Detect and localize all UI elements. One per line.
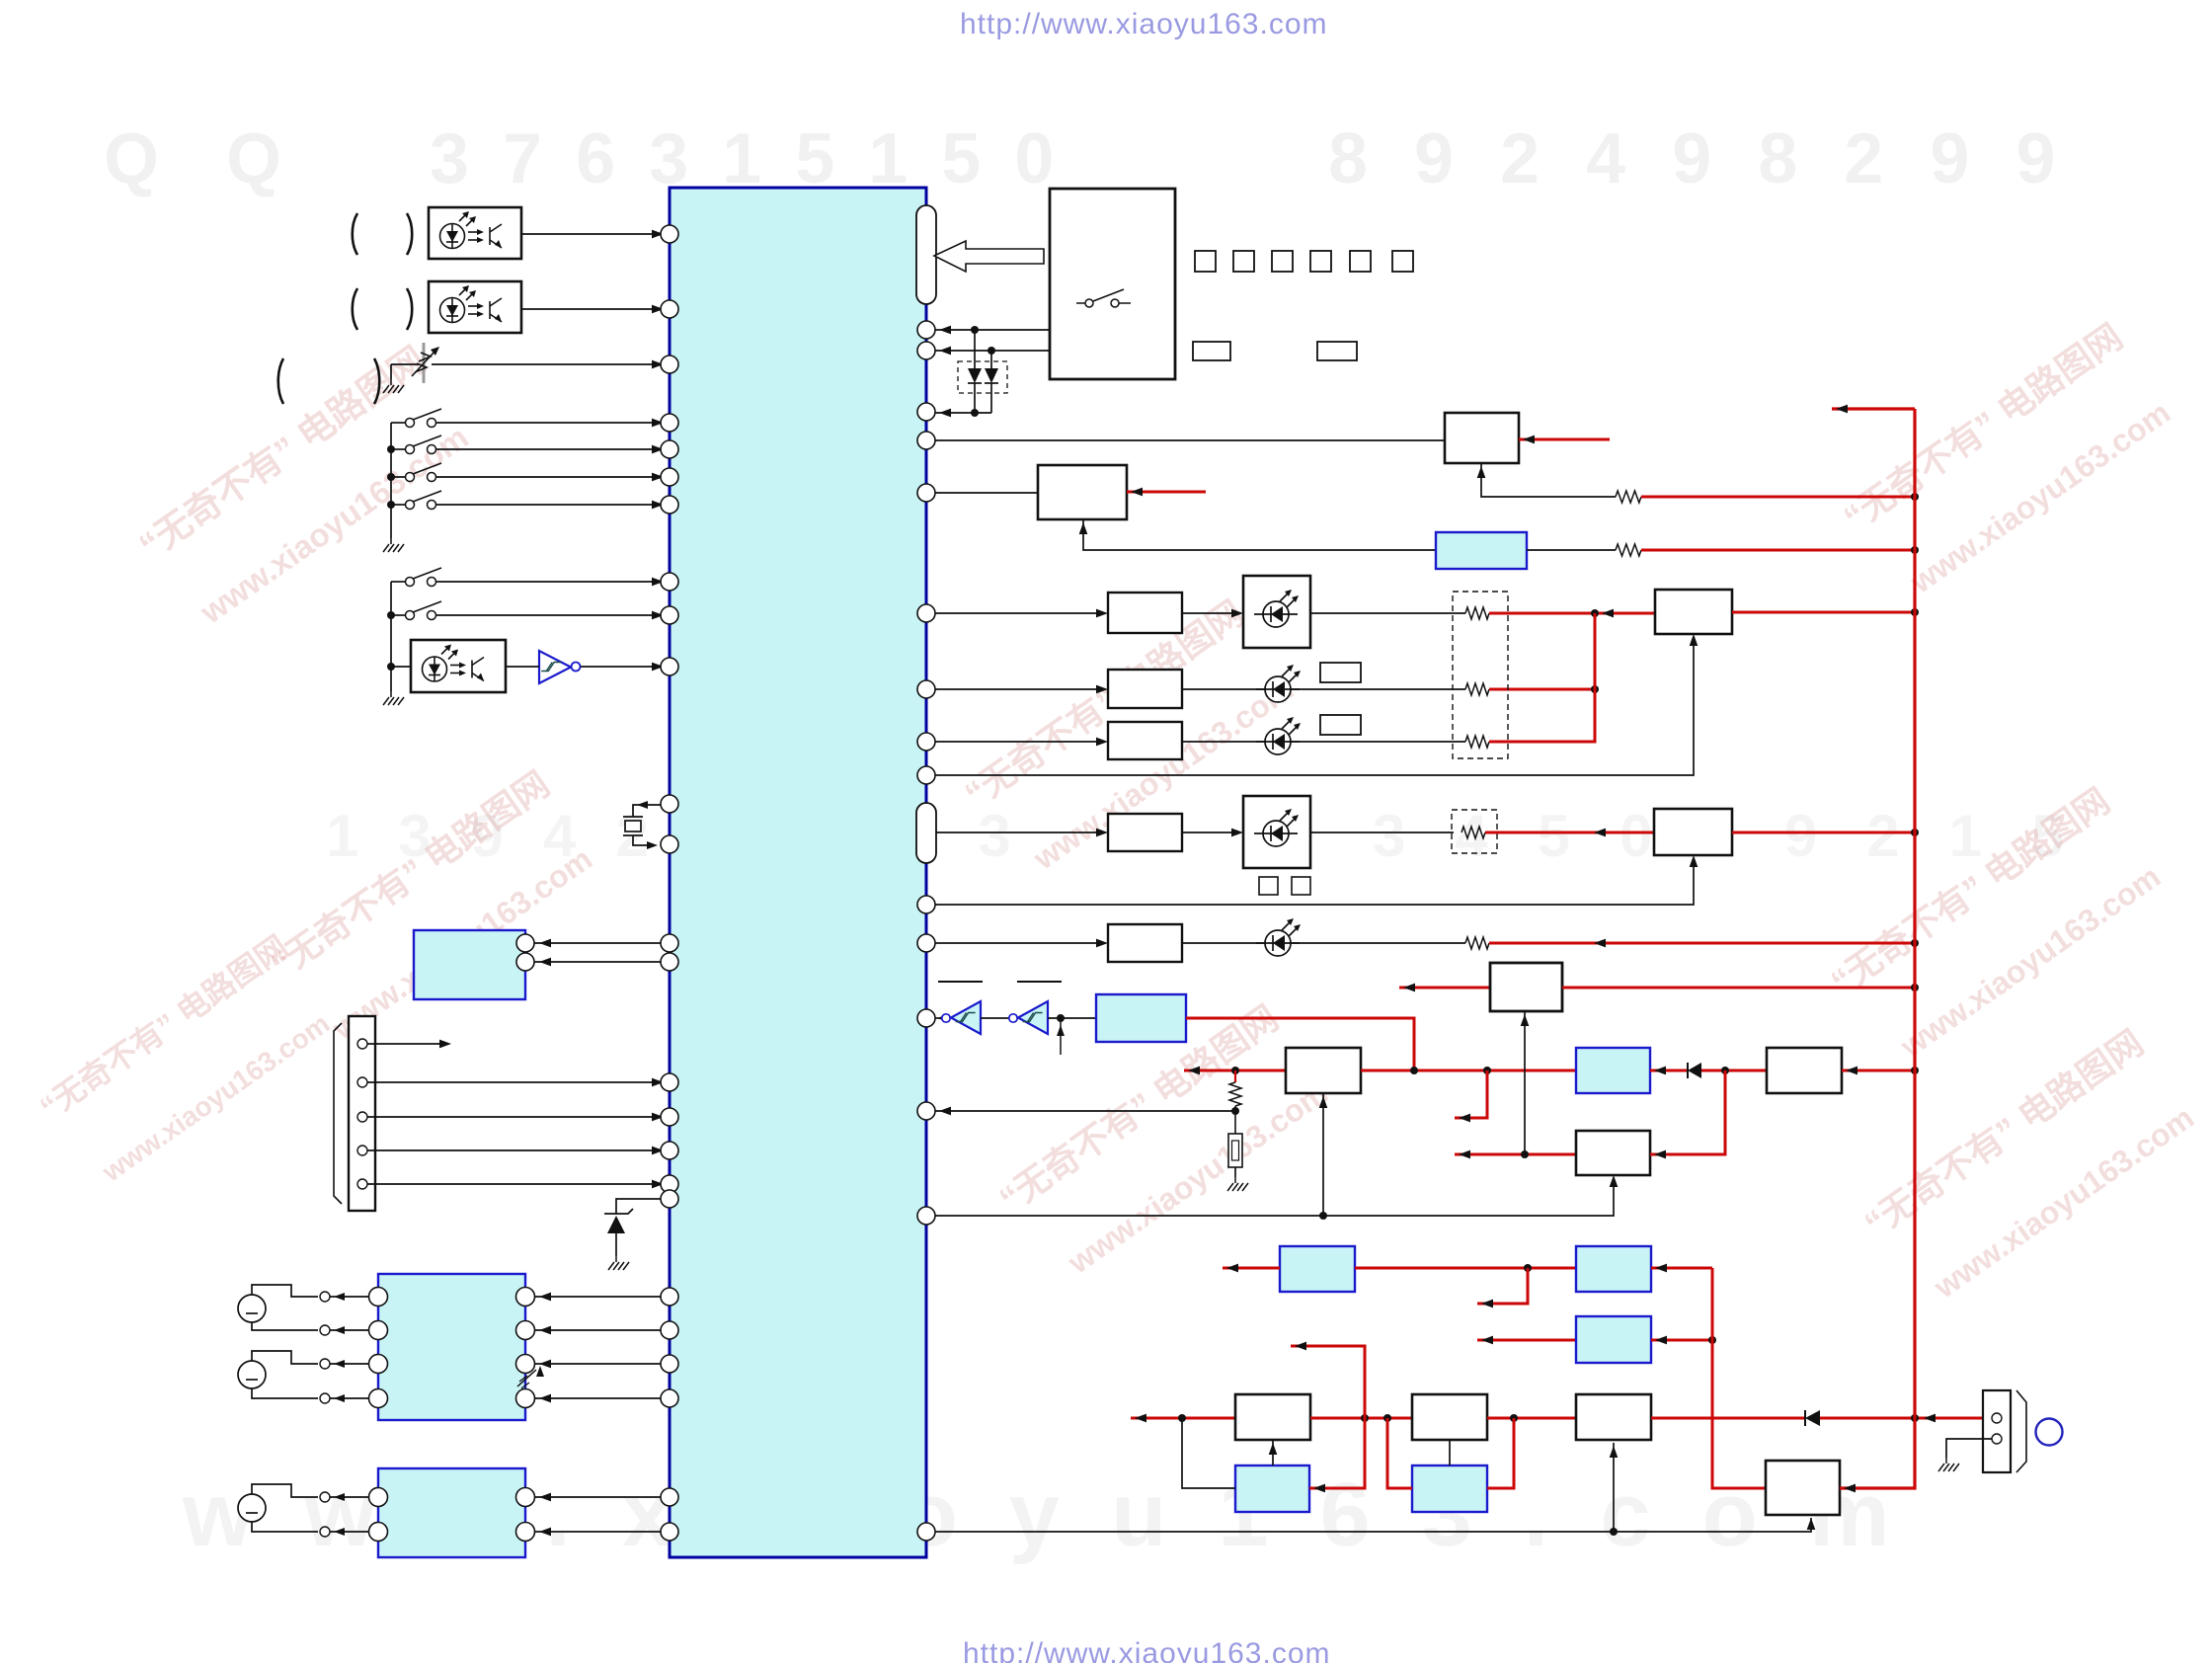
bus port P1 (pill) [916,205,936,304]
switch inside U6 [1076,289,1131,307]
red row1436 d [1820,1417,1983,1420]
contact small U5 y1551 [320,1527,330,1537]
pin U4 left y1416 [369,1389,388,1408]
red U17 to bus [1842,1069,1915,1072]
wire switch bus 2 [390,582,392,691]
small rect A [1193,342,1230,360]
small squares under LED4 [1259,877,1278,895]
red wire R1 to bus [1641,496,1915,499]
pin CN1-4 (left) [661,1142,678,1159]
red to U17 [1725,1069,1767,1072]
filter box U16 (cyan) [1576,1048,1650,1093]
pin (left) S2 [661,440,678,458]
ground switch bus 2 [383,691,404,705]
pin U4 right y1313 [516,1288,535,1307]
pin (right) 334 [917,321,935,339]
pin (left) S1 [661,414,678,432]
wire led1 right [1310,612,1465,614]
wire drv1 to led1 [1182,612,1236,614]
pin U3b (block) [516,953,534,971]
inverter bubble A [942,1014,950,1022]
LED3 [1256,717,1301,754]
wire J1 sleeve [252,1322,318,1330]
alt box U18 [1576,1131,1650,1175]
watermark top url [960,8,1328,41]
red diode link [1650,1069,1688,1072]
red wire led1 [1489,612,1655,615]
wire schmitt to pin [581,666,661,668]
pin (right) 355 [917,342,935,359]
red wire led5 [1489,942,1915,945]
photo-interrupter PH3 [411,640,506,692]
audio box U20 (cyan) [1280,1246,1355,1292]
pin U4 left y1347 [369,1321,388,1340]
schmitt inverter U13 [1018,1001,1048,1034]
fuse F1 [1234,1111,1236,1134]
diode pair D2 D3 (dashed box) [958,361,1007,393]
dashed resistor group box [1453,592,1508,758]
parentheses label PH2 [353,288,357,330]
jack J1 [238,1295,266,1322]
red row1436 a [1310,1417,1412,1420]
pin U5 left y1516 [369,1488,388,1507]
red vertical x1734 [1712,1268,1766,1488]
ground CN2 [1938,1458,1959,1471]
pin (right) 785 [917,766,935,784]
red bus vertical [1913,409,1916,1418]
wire J3 tip [252,1484,318,1497]
pin 1 (left) [661,225,678,243]
pin (right) 417 [917,403,935,421]
red wire U11 to bus [1732,831,1915,834]
wire U4-IC y1381 [535,1363,661,1365]
red row1000 left [1399,987,1490,990]
wire U5-IC y1551 [535,1531,661,1533]
red row1284 right [1651,1267,1712,1270]
pin 3 (left) [661,356,678,373]
red bus to U28 [1840,1418,1915,1488]
contact small U5 y1516 [320,1492,330,1502]
wire S4 to pin [435,504,661,506]
wire led2 right [1291,688,1465,690]
output connector CN2 [1983,1390,2011,1472]
wire zener [616,1199,661,1214]
sub box U27 (cyan) [1412,1465,1487,1512]
watermark QQ numbers row [104,119,349,199]
wire U4 contact y1347 [330,1329,368,1331]
overline marks [938,981,983,983]
resistor R7 [1465,937,1489,949]
pin zener (left) [661,1190,678,1208]
wire U4-IC y1416 [535,1397,661,1399]
pin CN1-5 (left) [661,1175,678,1193]
wire CN2 ground [1946,1439,1992,1458]
bus port P2 (pill) [916,803,936,863]
wire CN1-4 [367,1149,661,1151]
wire U13 out [1048,1017,1096,1019]
red stub down-left [1455,1070,1487,1118]
wire CN1-3 [367,1116,661,1118]
contact small U4 y1416 [320,1393,330,1403]
wire RV1 to pin [432,363,661,365]
pin (right) 1551 [917,1523,935,1541]
resistor R4 (in dashed) [1465,683,1489,695]
wire U12-U13 [981,1017,1008,1019]
indicator square 3 [1272,251,1293,272]
pin (left) S6 [661,606,678,624]
reg box U17 [1767,1048,1842,1093]
pin U4 right y1416 [516,1389,535,1408]
wire U26 to U23 [1272,1440,1274,1465]
amp box U23 [1235,1394,1310,1440]
red row1436 b [1487,1417,1576,1420]
power box U28 [1766,1461,1840,1515]
wire CN1-2 [367,1081,661,1083]
parentheses label PH1 [353,213,357,255]
pin U4 right y1381 [516,1355,535,1374]
red tap junction [1231,1067,1239,1074]
driver box DR1 [1108,593,1182,633]
pin (right) 1125 [917,1102,935,1120]
wire PH3 to schmitt [506,666,539,668]
amp box U25 [1576,1394,1651,1440]
wire S2 to pin [435,448,661,450]
LED1 box [1243,576,1310,648]
wire PH1 to pin [521,233,661,235]
red row1357 right [1651,1339,1712,1342]
red wire led2 [1489,688,1595,691]
wire U7 bottom feed [1481,463,1616,497]
wire CN1-5 [367,1183,661,1185]
small rect B [1317,342,1357,360]
indicator square 6 [1392,251,1413,272]
red U27 out [1487,1418,1514,1488]
red row1357 left [1477,1339,1576,1342]
driver box DR3 [1108,722,1182,759]
indicator square 4 [1310,251,1331,272]
red row1084 mid [1361,1069,1576,1072]
pin (right) 955 [917,934,935,952]
wire pin1031 [935,1017,942,1019]
red U19 to bus [1562,987,1915,990]
memory block U3 (cyan) [414,930,525,999]
sub box U26 (cyan) [1235,1465,1309,1512]
jack J2 [238,1361,266,1388]
pin CN1-3 (left) [661,1108,678,1126]
wire U3 row2 [534,961,661,963]
pin U3a (block) [516,934,534,952]
pin IC left y1347 [661,1321,678,1339]
contact CN2-1 [1992,1413,2002,1423]
connector CN1 bracket [334,1023,342,1204]
schmitt buffer U2 [539,651,571,683]
pin (right) 621 [917,604,935,622]
key block U4 (cyan) [378,1274,525,1420]
wire U5 contact y1516 [330,1496,368,1498]
crystal X1 [633,805,662,817]
wiper arrows U4 [517,1370,536,1386]
pin XTAL1 (left) [661,795,678,813]
driver box DR2 [1108,670,1182,708]
amp box U24 [1412,1394,1487,1440]
wire pin916 to U11 [935,858,1694,905]
red stub U7 [1519,438,1610,441]
pin U4 left y1381 [369,1355,388,1374]
pin U3a (left) [661,934,678,952]
system control box U6 [1050,189,1175,379]
wire U15 feed [1322,1093,1324,1217]
wire pin499 to box [935,492,1038,494]
wire J3 sleeve [252,1522,318,1532]
resistor R5 (in dashed) [1465,736,1489,748]
pin (right) 446 [917,432,935,449]
rect label LED3 [1320,715,1361,735]
LED2 [1256,665,1301,702]
zener diode D1 [607,1216,625,1233]
pin U4 right y1347 [516,1321,535,1340]
wire pin751 to drv [935,741,1101,743]
wire U28 feed [935,1518,1811,1532]
wire drv3 to led3 [1182,741,1265,743]
wire drv5 to led5 [1182,942,1265,944]
red wire U10 to bus [1732,611,1915,614]
reset box U7 [1445,413,1519,463]
switch S1 [406,409,442,428]
wire U26 feedback [1182,1418,1235,1488]
wire pin1125 [935,1110,1235,1112]
wire U19 feed [1524,1011,1526,1154]
red row1169 [1455,1153,1576,1156]
contact small U4 y1347 [320,1325,330,1335]
pin CN1-2 (left) [661,1073,678,1091]
pin IC left y1313 [661,1288,678,1306]
wire U4-IC y1313 [535,1296,661,1298]
wire CN1-1 stub [367,1043,444,1045]
indicator square 5 [1350,251,1371,272]
contact CN2-2 [1992,1434,2002,1444]
wire led4 right [1310,831,1454,833]
wire pin955 to drv [935,942,1101,944]
wire U5 contact y1551 [330,1531,368,1533]
pin (left) S3 [661,468,678,486]
pin IC left y1381 [661,1355,678,1373]
pin U5 left y1551 [369,1523,388,1542]
pin U4 left y1313 [369,1288,388,1307]
LED4 box [1243,796,1310,868]
pin (left) S5 [661,573,678,591]
contact CN1-2 [357,1077,367,1087]
power ctl box U8 [1038,465,1127,519]
schmitt inverter U12 [951,1001,981,1034]
audio box U22 (cyan) [1576,1316,1651,1363]
wire U6 row1 [935,329,1050,331]
resistor R3 (in dashed) [1465,607,1489,619]
red bus top arrow [1832,407,1915,410]
pin IC left y1551 [661,1523,678,1541]
servo box U15 [1286,1048,1361,1093]
wire U4 contact y1313 [330,1296,368,1298]
watermark middle digits row [326,802,1051,870]
arrow up stub [1060,1018,1062,1055]
wire U4 contact y1416 [330,1397,368,1399]
clock box U14 (cyan) [1096,994,1186,1042]
pin (left) PH3 [661,658,678,675]
wire U5-IC y1516 [535,1496,661,1498]
wire switch bus 1 [390,423,392,538]
wire drv4 to led4 [1182,831,1236,833]
mic block U5 (cyan) [378,1468,525,1557]
wire J2 sleeve [252,1388,318,1398]
contact CN1-4 [357,1146,367,1155]
wire pin785 to U10 [935,637,1694,775]
ground F1 [1227,1177,1248,1191]
contact small U4 y1313 [320,1292,330,1302]
red row1436 c [1651,1417,1805,1420]
watermark bottom url [963,1637,1331,1663]
wire drv2 to led2 [1182,688,1265,690]
wire U9 to R2 [1527,549,1616,551]
pin XTAL2 (left) [661,835,678,853]
pin U5 right y1516 [516,1488,535,1507]
rect label LED2 [1320,663,1361,682]
diode D5 [1805,1410,1820,1426]
resistor R1 [1616,491,1641,503]
pin IC left y1516 [661,1488,678,1506]
pin (right) 499 [917,484,935,502]
wire led3 right [1291,741,1465,743]
diode D4 [1688,1063,1701,1078]
parentheses label RV1 [278,358,283,404]
ground switch bus 1 [383,538,404,552]
switch S2 [406,436,442,454]
wire pill2 to drv [936,831,1101,833]
red row1284 mid [1355,1267,1576,1270]
wire pin621 to drv [935,612,1101,614]
bracket CN2 [2016,1390,2026,1472]
switch S4 [406,491,442,510]
pin 2 (left) [661,300,678,318]
wire U3 row1 [534,942,661,944]
red U26 input [1291,1346,1365,1488]
contact CN1-3 [357,1112,367,1122]
wire J1 tip [252,1285,318,1297]
indicator circle (blue) [2036,1419,2063,1446]
wire pin698 to drv [935,688,1101,690]
wire J2 tip [252,1351,318,1364]
pin U5 right y1551 [516,1523,535,1542]
wire S3 to pin [435,476,661,478]
wire U6 row2 [935,350,1050,352]
wire led5 right [1291,942,1465,944]
ground zener [608,1256,629,1270]
red row1084 left arrow [1184,1069,1286,1072]
wire S1 to pin [435,422,661,424]
variable resistor RV1 [391,363,419,365]
watermark giant bottom text [183,1464,1941,1567]
wire U8 bottom feed [1083,519,1436,550]
sub box U9 (cyan) [1436,532,1527,569]
pin (right) 751 [917,733,935,751]
wire U4 contact y1381 [330,1363,368,1365]
resistor R2 [1616,544,1641,556]
contact small U4 y1381 [320,1359,330,1369]
contact CN1-5 [357,1179,367,1189]
wire U27 to U24 [1449,1440,1451,1465]
connector CN1 body [349,1016,375,1211]
driver box DR4 [1108,814,1182,851]
pin (left) S4 [661,496,678,514]
audio box U21 (cyan) [1576,1246,1651,1292]
LED5 [1256,918,1301,956]
wire U4-IC y1347 [535,1329,661,1331]
contact CN1-1 [357,1039,367,1049]
red wire R2 to bus [1641,549,1915,552]
led driver box U10 [1655,590,1732,634]
red wire led3 [1489,689,1595,742]
red stub 1284 [1477,1268,1528,1304]
pin (right) 916 [917,896,935,913]
red row1436 left arrow [1131,1417,1235,1420]
resistor R6 (dashed box) [1452,810,1497,853]
sw reg box U19 [1490,963,1562,1011]
switch S6 [406,601,442,620]
wire pin1231 [935,1178,1614,1216]
pin (right) 1231 [917,1207,935,1225]
red wire led net vertical [1594,613,1597,689]
indicator square 2 [1233,251,1254,272]
wire S5 to pin [435,581,661,583]
mute box U11 [1654,809,1732,855]
red U27 wiring [1387,1418,1412,1488]
red stub U8 [1127,491,1206,494]
pin (right) 698 [917,680,935,698]
IC U1 main system LSI [670,188,926,1557]
indicator square 1 [1195,251,1216,272]
hollow arrow into P1 [934,241,1044,272]
wire pin446 to box [935,439,1445,441]
inverter bubble B [1009,1014,1017,1022]
switch S5 [406,568,442,587]
pin U3b (left) [661,953,678,971]
photo-interrupter PH2 [429,281,521,333]
switch S3 [406,463,442,482]
photo-interrupter PH1 [429,207,521,259]
jack J3 [238,1494,266,1522]
red wire led4 [1485,831,1654,834]
wire S6 to pin [435,614,661,616]
red wire U14 out [1186,1018,1414,1070]
pin (right) 1031 [917,1009,935,1027]
resistor R8 vertical [1234,1070,1236,1082]
red row1284 left [1223,1267,1280,1270]
wire PH2 to pin [521,308,661,310]
driver box DR5 [1108,924,1182,962]
wire U25 feed [1613,1443,1615,1532]
pin IC left y1416 [661,1389,678,1407]
red U18 right [1650,1070,1725,1154]
